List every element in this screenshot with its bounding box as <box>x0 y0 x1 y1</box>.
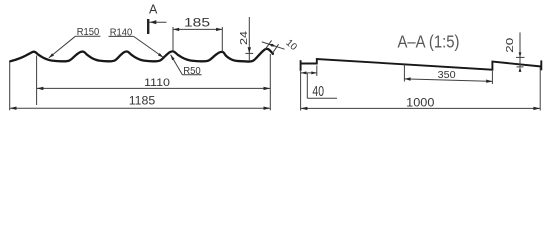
svg-text:1000: 1000 <box>406 98 434 110</box>
dimension 20 <box>519 32 521 67</box>
label R150 <box>75 35 100 37</box>
dimension 350 <box>403 65 405 82</box>
svg-text:40: 40 <box>312 84 324 100</box>
dimension 185 <box>172 27 174 51</box>
extension line right shared <box>269 54 271 110</box>
svg-text:R140: R140 <box>110 26 133 38</box>
right end lip <box>540 60 542 70</box>
svg-text:24: 24 <box>239 31 250 45</box>
dimension 1000 <box>300 71 302 111</box>
svg-text:A–A (1:5): A–A (1:5) <box>398 31 460 51</box>
section sheet profile <box>300 60 302 71</box>
svg-text:20: 20 <box>505 37 516 52</box>
svg-text:1185: 1185 <box>129 95 156 108</box>
dimension 10 (lip, slanted) <box>265 40 271 49</box>
svg-text:R50: R50 <box>183 66 201 77</box>
svg-text:A: A <box>149 2 158 16</box>
dimension 40 <box>316 66 318 77</box>
svg-text:350: 350 <box>438 70 457 81</box>
extension line left (1110) <box>36 56 38 106</box>
tile wave profile (front view) <box>10 49 273 62</box>
svg-text:185: 185 <box>184 16 210 30</box>
dimension 1110 <box>37 87 271 89</box>
extension line left (1185) <box>9 62 11 111</box>
svg-text:1110: 1110 <box>144 77 170 89</box>
label R50 <box>182 74 201 76</box>
dimension 1185 <box>10 107 271 109</box>
dimension 24 <box>248 17 250 60</box>
svg-text:10: 10 <box>283 37 299 53</box>
section cut marker A <box>147 19 149 34</box>
label R140 <box>109 35 134 37</box>
svg-text:R150: R150 <box>77 26 100 38</box>
